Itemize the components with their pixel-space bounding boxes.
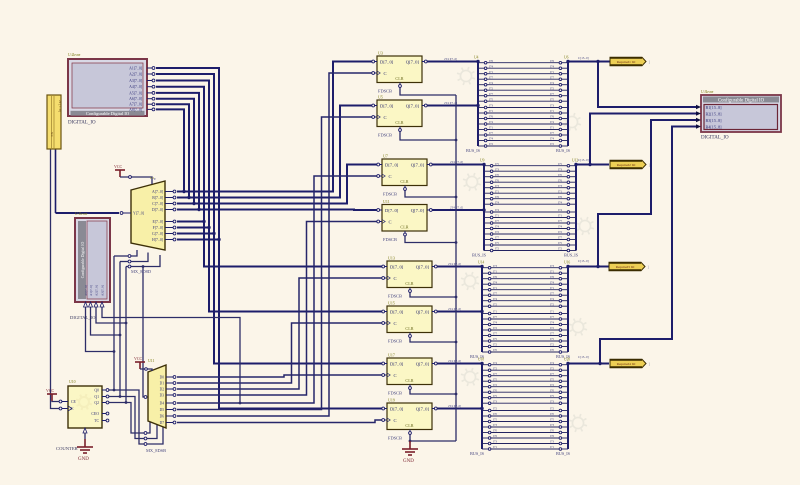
svg-text:I76: I76 [493,434,497,438]
svg-text:FDSCB: FDSCB [388,391,402,396]
svg-text:I75: I75 [550,337,554,341]
svg-text:I74: I74 [493,361,497,365]
svg-text:Q1: Q1 [94,395,99,399]
svg-text:U15: U15 [388,301,395,306]
svg-text:CLR: CLR [395,120,403,125]
svg-text:D2: D2 [160,388,165,392]
svg-text:Q0: Q0 [94,389,99,393]
svg-text:2T4 I[7..0]: 2T4 I[7..0] [448,262,461,266]
svg-text:U13: U13 [388,256,395,261]
svg-text:U16: U16 [564,261,570,265]
svg-text:I75: I75 [550,418,554,422]
svg-text:GND: GND [78,457,89,462]
svg-text:I77: I77 [550,315,554,319]
svg-text:D[7..0]: D[7..0] [390,309,404,314]
svg-text:U4: U4 [474,56,479,60]
svg-text:I77: I77 [550,75,554,79]
svg-text:CLR: CLR [400,225,408,230]
svg-text:I77: I77 [489,75,493,79]
svg-text:D6: D6 [160,415,165,419]
svg-text:I73: I73 [558,184,562,188]
svg-text:I74: I74 [550,321,554,325]
svg-text:I74: I74 [558,225,562,229]
svg-text:I77: I77 [558,236,562,240]
svg-text:FDSCB: FDSCB [383,237,397,242]
svg-text:I70: I70 [493,388,497,392]
svg-text:I73: I73 [493,399,497,403]
svg-text:I74: I74 [550,297,554,301]
svg-text:I73: I73 [558,167,562,171]
svg-text:I71: I71 [493,269,497,273]
svg-text:E[7..0]: E[7..0] [152,220,163,224]
svg-text:BUS_IS: BUS_IS [472,253,487,258]
svg-text:I74: I74 [495,208,499,212]
svg-text:FDSCB: FDSCB [378,133,392,138]
svg-text:I70: I70 [550,388,554,392]
svg-text:A4[7..0]: A4[7..0] [129,85,142,89]
svg-text:GND: GND [403,459,414,464]
svg-text:I75: I75 [489,97,493,101]
svg-text:I74: I74 [550,137,554,141]
svg-text:COUNTER: COUNTER [56,446,79,451]
svg-text:2T4 I[7..0]: 2T4 I[7..0] [448,359,461,363]
svg-text:2T4 I[7..0]: 2T4 I[7..0] [448,404,461,408]
svg-text:Required3 IO: Required3 IO [616,265,635,269]
svg-text:Required2 IO: Required2 IO [617,163,636,167]
svg-text:A2[7..0]: A2[7..0] [129,73,142,77]
svg-text:DIGITAL_IO: DIGITAL_IO [701,136,729,141]
svg-text:C: C [389,174,392,179]
svg-text:I77: I77 [495,236,499,240]
svg-text:I74: I74 [550,81,554,85]
svg-text:D[7..0]: D[7..0] [385,208,399,213]
svg-text:2T4 I[7..0]: 2T4 I[7..0] [450,160,463,164]
svg-text:I70: I70 [550,429,554,433]
svg-text:FDSCB: FDSCB [388,294,402,299]
svg-text:I73: I73 [550,264,554,268]
svg-text:B1[15..8]: B1[15..8] [706,105,723,110]
svg-text:I76: I76 [558,195,562,199]
svg-text:D[7..0]: D[7..0] [380,59,394,64]
svg-text:VCC: VCC [46,388,55,393]
svg-text:I73: I73 [493,264,497,268]
svg-text:BUS_IS: BUS_IS [564,253,579,258]
svg-text:I75: I75 [493,394,497,398]
svg-text:BUS_IS: BUS_IS [556,451,571,456]
svg-text:I70: I70 [550,412,554,416]
svg-text:U9: U9 [480,159,485,163]
svg-text:FDSCB: FDSCB [388,436,402,441]
svg-text:Q[7..0]: Q[7..0] [406,103,420,108]
svg-text:C[15..0]: C[15..0] [578,158,589,162]
svg-text:I72: I72 [493,326,497,330]
svg-text:I74: I74 [558,200,562,204]
svg-text:B[7..0]: B[7..0] [152,196,163,200]
svg-text:U11: U11 [383,199,390,204]
svg-text:I77: I77 [550,332,554,336]
svg-text:U11: U11 [148,359,154,363]
svg-text:I73: I73 [489,104,493,108]
svg-text:A0[7..0]: A0[7..0] [84,285,88,296]
svg-text:VCC: VCC [134,356,143,361]
svg-text:U18: U18 [478,358,484,362]
svg-text:I70: I70 [493,348,497,352]
svg-text:I72: I72 [493,407,497,411]
svg-text:2T [7..0]: 2T [7..0] [58,100,62,112]
svg-text:A8[7..0]: A8[7..0] [129,108,142,112]
svg-text:CE: CE [71,400,77,404]
svg-text:C: C [394,321,397,326]
svg-text:N/C: N/C [50,132,54,137]
svg-text:U:1kvne: U:1kvne [75,212,88,216]
svg-text:I72: I72 [550,343,554,347]
svg-text:I72: I72 [550,407,554,411]
svg-text:E: E [154,177,156,181]
svg-text:CLR: CLR [405,281,413,286]
svg-text:A3[7..0]: A3[7..0] [101,285,105,296]
svg-text:I74: I74 [493,280,497,284]
svg-text:2T4 I[7..0]: 2T4 I[7..0] [444,101,457,105]
svg-text:I72: I72 [495,230,499,234]
svg-text:I77: I77 [493,372,497,376]
svg-text:U19: U19 [388,398,395,403]
svg-text:CEO: CEO [91,412,99,416]
svg-text:I74: I74 [550,64,554,68]
svg-text:VCC: VCC [114,164,123,169]
svg-text:I72: I72 [550,142,554,146]
svg-text:I76: I76 [495,195,499,199]
svg-text:U:2kvne: U:2kvne [68,53,81,57]
svg-text:I74: I74 [493,321,497,325]
svg-text:I75: I75 [558,162,562,166]
svg-text:I71: I71 [489,70,493,74]
svg-text:I74: I74 [558,208,562,212]
svg-text:C: C [394,418,397,423]
svg-text:I72: I72 [495,247,499,251]
svg-text:I77: I77 [550,372,554,376]
svg-text:D[7..0]: D[7..0] [390,406,404,411]
svg-text:I71: I71 [495,189,499,193]
svg-text:2T4 I[7..0]: 2T4 I[7..0] [448,307,461,311]
svg-text:Required1 IO: Required1 IO [617,60,636,64]
svg-text:I71: I71 [558,189,562,193]
svg-text:I76: I76 [493,275,497,279]
svg-text:2T4 I[7..0]: 2T4 I[7..0] [450,206,463,210]
svg-text:U14: U14 [478,261,484,265]
svg-text:I74: I74 [495,200,499,204]
svg-text:I72: I72 [489,86,493,90]
svg-text:I73: I73 [550,399,554,403]
svg-text:I77: I77 [550,92,554,96]
svg-text:I71: I71 [489,126,493,130]
svg-text:C[7..0]: C[7..0] [152,202,163,206]
svg-text:I75: I75 [495,162,499,166]
svg-text:I75: I75 [493,337,497,341]
svg-text:I71: I71 [550,310,554,314]
svg-text:I77: I77 [493,332,497,336]
svg-text:I74: I74 [550,361,554,365]
svg-text:I73: I73 [550,423,554,427]
svg-text:CLR: CLR [405,326,413,331]
svg-text:Required4 IO: Required4 IO [617,362,636,366]
svg-text:I72: I72 [493,302,497,306]
svg-text:I74: I74 [489,81,493,85]
svg-text:I72: I72 [550,326,554,330]
svg-text:U:3kvne: U:3kvne [701,90,714,94]
svg-text:I76: I76 [550,434,554,438]
svg-text:TC: TC [94,419,99,423]
svg-text:C: C [389,219,392,224]
svg-text:D0: D0 [160,376,165,380]
svg-text:I75: I75 [493,377,497,381]
svg-text:I71: I71 [493,445,497,449]
svg-text:C: C [384,115,387,120]
svg-text:I72: I72 [493,383,497,387]
svg-text:I71: I71 [493,286,497,290]
svg-text:D1: D1 [160,382,165,386]
svg-text:U6: U6 [564,56,569,60]
svg-text:I76: I76 [550,59,554,63]
svg-text:U17: U17 [388,353,395,358]
svg-text:D5: D5 [160,408,165,412]
svg-text:D3: D3 [160,394,165,398]
svg-text:Configurable Digital IO: Configurable Digital IO [86,111,130,116]
svg-text:I77: I77 [489,92,493,96]
svg-text:A1[7..0]: A1[7..0] [89,285,93,296]
svg-text:DIGITAL_IO: DIGITAL_IO [68,121,96,126]
svg-text:I71: I71 [550,269,554,273]
svg-text:I77: I77 [493,315,497,319]
svg-text:H[7..0]: H[7..0] [152,238,163,242]
svg-text:D7: D7 [160,421,165,425]
svg-text:I73: I73 [550,104,554,108]
svg-text:U20: U20 [564,358,570,362]
svg-text:I77: I77 [493,291,497,295]
svg-text:I77: I77 [550,291,554,295]
svg-text:Configurable Digital IO: Configurable Digital IO [81,242,85,279]
svg-text:Q2: Q2 [94,401,99,405]
svg-text:I70: I70 [493,412,497,416]
svg-text:FDSCB: FDSCB [383,192,397,197]
svg-text:G[7..0]: G[7..0] [152,232,163,236]
svg-text:I75: I75 [550,394,554,398]
svg-text:I72: I72 [550,302,554,306]
svg-text:A[7..0]: A[7..0] [152,190,163,194]
svg-text:U7: U7 [383,154,388,159]
svg-text:I77: I77 [558,219,562,223]
svg-text:I71: I71 [550,445,554,449]
svg-text:I72: I72 [493,343,497,347]
svg-text:BUS_IS: BUS_IS [556,148,571,153]
svg-text:I71: I71 [550,70,554,74]
svg-text:D[7..0]: D[7..0] [385,162,399,167]
svg-text:A3[7..0]: A3[7..0] [129,79,142,83]
svg-text:D[7..0]: D[7..0] [152,208,163,212]
svg-text:I71: I71 [558,214,562,218]
svg-text:Y[7..0]: Y[7..0] [133,212,144,216]
svg-text:I76: I76 [489,59,493,63]
svg-text:I73: I73 [493,423,497,427]
svg-text:I74: I74 [493,297,497,301]
svg-text:U1: U1 [150,176,154,180]
svg-text:Q[7..0]: Q[7..0] [411,162,425,167]
svg-text:I71: I71 [493,310,497,314]
svg-text:CLR: CLR [405,378,413,383]
svg-text:Configurable Digital IO: Configurable Digital IO [718,99,765,104]
svg-text:I71: I71 [550,126,554,130]
svg-text:B4[15..8]: B4[15..8] [706,124,723,129]
svg-text:B2[15..8]: B2[15..8] [706,111,723,116]
svg-text:I73: I73 [550,440,554,444]
svg-text:C[15..0]: C[15..0] [578,56,589,60]
svg-text:I75: I75 [550,97,554,101]
svg-text:C: C [394,373,397,378]
svg-text:CLR: CLR [395,76,403,81]
svg-text:I76: I76 [489,115,493,119]
svg-text:A1[7..0]: A1[7..0] [129,67,142,71]
svg-text:I72: I72 [550,383,554,387]
svg-text:BUS_IS: BUS_IS [470,451,485,456]
svg-text:A2[7..0]: A2[7..0] [95,285,99,296]
svg-text:D4: D4 [160,402,165,406]
svg-text:I71: I71 [550,109,554,113]
svg-text:I72: I72 [550,366,554,370]
svg-text:I73: I73 [495,184,499,188]
svg-text:I72: I72 [489,142,493,146]
svg-text:I73: I73 [493,440,497,444]
svg-text:Q[7..0]: Q[7..0] [411,208,425,213]
svg-text:I74: I74 [550,120,554,124]
svg-text:Q[7..0]: Q[7..0] [416,264,430,269]
svg-text:CLR: CLR [400,179,408,184]
svg-text:Q[7..0]: Q[7..0] [406,59,420,64]
svg-text:I76: I76 [550,115,554,119]
svg-text:FDSCB: FDSCB [378,89,392,94]
svg-text:I76: I76 [550,275,554,279]
svg-text:I70: I70 [558,173,562,177]
svg-text:D[7..0]: D[7..0] [390,264,404,269]
svg-text:A7[7..0]: A7[7..0] [129,103,142,107]
svg-text:I77: I77 [495,219,499,223]
svg-text:I74: I74 [489,137,493,141]
svg-text:C: C [384,71,387,76]
svg-text:U10: U10 [69,380,76,384]
svg-text:I72: I72 [550,86,554,90]
svg-text:I70: I70 [495,173,499,177]
svg-text:I72: I72 [558,247,562,251]
svg-text:DIGITAL_IO: DIGITAL_IO [70,315,96,320]
svg-text:I75: I75 [495,241,499,245]
svg-text:I70: I70 [550,348,554,352]
svg-text:C[15..0]: C[15..0] [578,355,589,359]
svg-text:A6[7..0]: A6[7..0] [129,97,142,101]
svg-text:Q[7..0]: Q[7..0] [416,309,430,314]
svg-text:MX_8D8D: MX_8D8D [131,269,151,274]
svg-text:I73: I73 [495,167,499,171]
svg-text:I77: I77 [489,131,493,135]
svg-text:I75: I75 [493,418,497,422]
svg-text:B3[15..8]: B3[15..8] [706,118,723,123]
svg-text:I70: I70 [493,429,497,433]
svg-text:I76: I76 [558,178,562,182]
svg-text:F[7..0]: F[7..0] [153,226,163,230]
svg-text:D[7..0]: D[7..0] [390,361,404,366]
svg-text:I72: I72 [558,230,562,234]
svg-text:A5[7..0]: A5[7..0] [129,91,142,95]
svg-text:I74: I74 [550,280,554,284]
svg-text:C: C [394,276,397,281]
svg-text:I75: I75 [558,241,562,245]
svg-text:FDSCB: FDSCB [388,339,402,344]
svg-text:2T4 I[7..0]: 2T4 I[7..0] [444,57,457,61]
svg-text:MX_8DSB: MX_8DSB [146,448,166,453]
svg-text:I71: I71 [495,214,499,218]
svg-text:I74: I74 [489,120,493,124]
svg-text:BUS_IS: BUS_IS [466,148,481,153]
svg-text:I77: I77 [550,131,554,135]
svg-text:I74: I74 [495,225,499,229]
svg-text:CLR: CLR [405,423,413,428]
svg-text:I74: I74 [489,64,493,68]
svg-text:U5: U5 [378,95,383,100]
svg-text:Q[7..0]: Q[7..0] [416,406,430,411]
svg-text:Q[7..0]: Q[7..0] [416,361,430,366]
svg-text:D[7..0]: D[7..0] [380,103,394,108]
svg-text:C[15..0]: C[15..0] [578,259,589,263]
svg-text:I76: I76 [495,178,499,182]
svg-text:U3: U3 [378,51,383,56]
svg-text:I71: I71 [489,109,493,113]
svg-text:I72: I72 [493,366,497,370]
svg-text:I75: I75 [550,377,554,381]
svg-text:I71: I71 [550,286,554,290]
